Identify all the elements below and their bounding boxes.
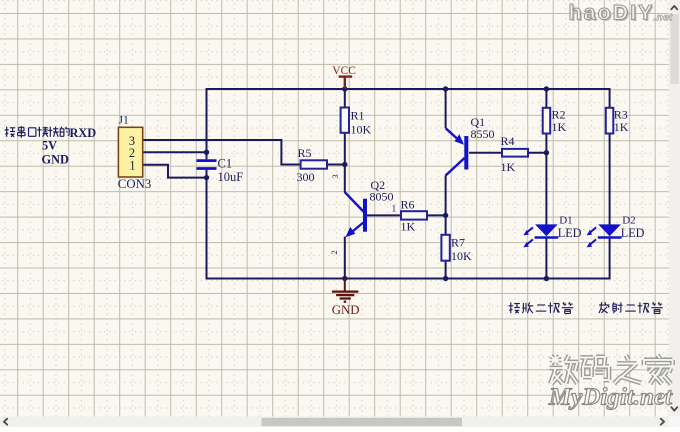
svg-text:1K: 1K [401,220,416,234]
svg-text:5V: 5V [42,138,57,152]
svg-text:GND: GND [332,303,360,317]
svg-text:10K: 10K [351,123,372,137]
svg-text:R7: R7 [451,236,465,250]
svg-text:MyDigit.net: MyDigit.net [548,384,673,411]
svg-text:CON3: CON3 [118,177,151,191]
svg-text:1: 1 [392,205,397,215]
svg-text:D2: D2 [622,214,635,226]
svg-text:10uF: 10uF [218,170,244,184]
svg-text:3: 3 [330,174,340,178]
svg-text:GND: GND [42,152,69,166]
svg-text:LED: LED [558,226,582,240]
svg-text:R6: R6 [401,198,415,212]
svg-text:1: 1 [129,159,135,173]
svg-text:10K: 10K [451,249,472,263]
svg-text:D1: D1 [559,214,572,226]
svg-text:1K: 1K [501,160,516,174]
svg-text:VCC: VCC [332,65,356,77]
svg-text:1K: 1K [552,120,567,134]
svg-text:J1: J1 [119,115,129,127]
svg-text:C1: C1 [218,156,233,170]
svg-text:R5: R5 [298,146,312,160]
svg-text:300: 300 [297,170,315,184]
svg-text:8050: 8050 [370,190,394,204]
svg-text:R1: R1 [351,109,365,123]
svg-text:R4: R4 [501,134,515,148]
svg-text:1K: 1K [614,120,629,134]
svg-text:LED: LED [621,226,645,240]
svg-text:2: 2 [329,250,339,254]
svg-text:8550: 8550 [471,127,495,141]
svg-text:.net: .net [654,12,673,24]
svg-text:RXD: RXD [70,126,97,140]
